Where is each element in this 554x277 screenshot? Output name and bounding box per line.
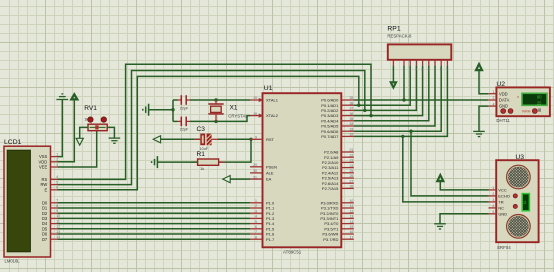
svg-text:x: x [517,95,519,99]
wire D0 net: LCD D0 to U1 P1.0 [58,202,251,204]
junction node RW/P0.2 [363,109,366,112]
svg-text:37: 37 [349,107,353,111]
svg-text:5: 5 [492,210,494,214]
wire RST net to U1 [218,138,250,140]
junction node RS/P0.3 [369,114,372,117]
svg-text:21: 21 [349,148,353,152]
svg-text:TR: TR [498,200,503,205]
svg-text:9: 9 [446,68,448,72]
svg-text:5: 5 [421,68,423,72]
wire E net: LCD E to U1 P0.1/AD1 [58,76,359,189]
svg-text:XTAL1: XTAL1 [266,98,279,103]
wire LCD VSS to ground [58,100,63,157]
wire LCD VEE to RV1 wiper [58,131,97,167]
wire U2 VDD to power [479,71,488,94]
svg-text:AT89C51: AT89C51 [283,249,302,254]
svg-text:18: 18 [253,112,257,116]
svg-text:VEE: VEE [39,165,47,170]
svg-text:23: 23 [349,159,353,163]
svg-text:32: 32 [349,133,353,137]
svg-text:VCC: VCC [498,188,507,193]
wire caps tee vertical [172,100,174,121]
svg-text:6: 6 [56,186,58,190]
wire XTAL2 net [190,116,250,122]
wire RP1 pin2 vertical [403,66,405,100]
svg-text:17: 17 [349,235,353,239]
wire P0.2 net to RP1 pin 4 [354,66,417,111]
U1 left pins [250,96,279,242]
capacitor C2 22pF (bottom) [173,117,190,132]
svg-text:5: 5 [56,180,58,184]
microcontroller U1 AT89C51 [263,85,342,255]
svg-text:1k: 1k [200,166,204,171]
svg-text:14: 14 [56,235,60,239]
junction crystal bottom [214,120,217,123]
power arrow down (RV1 left) [76,138,83,145]
svg-text:22: 22 [349,153,353,157]
svg-text:11: 11 [56,219,60,223]
svg-text:U1: U1 [264,85,273,92]
svg-text:16: 16 [349,230,353,234]
svg-text:3: 3 [56,163,58,167]
wire P0.1 net to RP1 pin 3 [354,66,410,106]
svg-text:36: 36 [349,112,353,116]
svg-text:28: 28 [349,185,353,189]
svg-text:4: 4 [492,204,494,208]
wire R1 to RST [219,139,251,162]
svg-text:2: 2 [493,96,495,100]
wire P0.3 net to RP1 pin 5 [354,66,423,116]
svg-text:13: 13 [56,230,60,234]
crystal X1 [208,100,248,121]
svg-text:X1: X1 [230,105,238,112]
svg-text:2: 2 [492,192,494,196]
svg-text:1: 1 [56,152,58,156]
svg-text:4: 4 [56,175,58,179]
svg-text:VDD: VDD [499,91,508,96]
svg-text:E: E [44,187,47,192]
wire D5 net: LCD D5 to U1 P1.5 [58,228,251,230]
svg-text:13: 13 [349,215,353,219]
svg-text:12: 12 [56,225,60,229]
svg-text:7: 7 [56,199,58,203]
svg-text:8: 8 [255,235,257,239]
svg-text:ALE: ALE [266,171,274,176]
wire P0.0/DATA net to U2 [354,99,489,101]
svg-text:6: 6 [428,68,430,72]
svg-text:33: 33 [349,127,353,131]
capacitor C1 22pF (top) [173,95,190,110]
svg-text:1: 1 [493,90,495,94]
wire P0.7 net to RP1 pin 9 [354,66,448,137]
svg-text:9: 9 [255,136,257,140]
svg-text:ECHO: ECHO [498,194,510,199]
svg-text:10: 10 [56,214,60,218]
svg-text:11: 11 [350,204,354,208]
wire D4 net: LCD D4 to U1 P1.4 [58,223,251,225]
wire EA to power terminal [230,178,250,180]
potentiometer RV1 1k [84,105,107,131]
svg-text:3: 3 [409,68,411,72]
resistor R1 1k [191,151,225,171]
wire RV1 right terminal to ground [107,127,114,138]
wire D6 net: LCD D6 to U1 P1.6 [58,233,251,235]
svg-text:25: 25 [349,169,353,173]
svg-text:10: 10 [349,199,353,203]
svg-text:2: 2 [56,158,58,162]
svg-text:4: 4 [493,102,495,106]
wire P0.6 net to RP1 pin 8 [354,66,441,132]
svg-text:PSEN: PSEN [266,164,277,169]
wire RP1 pin1 to ground arrow [392,66,394,82]
svg-text:38: 38 [349,101,353,105]
wire XTAL1 net [190,99,250,101]
svg-text:P2.7/A15: P2.7/A15 [322,186,339,191]
svg-text:LCD1: LCD1 [4,139,22,146]
ground (U3) [434,224,446,229]
svg-text:35: 35 [349,117,353,121]
ground (U2) [473,131,485,136]
svg-text:14: 14 [349,220,353,224]
junction caps tee [171,108,174,111]
svg-text:RESPACK-8: RESPACK-8 [387,33,412,38]
power arrow (U3 VCC) [437,174,444,182]
svg-text:%RH: %RH [522,110,531,114]
junction RST/R1 [249,138,252,141]
power arrow left (RST net) [153,136,160,143]
sensor U3 SRF04 [489,154,539,250]
wire terminal to caps tee [149,109,173,111]
wire P0.4 net to RP1 pin 6 [354,66,429,121]
svg-text:7: 7 [434,68,436,72]
svg-text:8: 8 [440,68,442,72]
svg-text:9: 9 [56,209,58,213]
svg-text:2: 2 [403,68,405,72]
wire RST left [161,138,200,140]
wire LCD VDD to power [58,100,75,162]
svg-text:3: 3 [492,198,494,202]
wire RS net: LCD RS to U1 P0.3/AD3 [58,64,372,179]
junction node E/P0.1 [357,104,360,107]
svg-text:25: 25 [537,100,542,105]
wire U2 GND to ground [479,106,488,131]
svg-text:1: 1 [492,186,494,190]
junction RP1 pin2 on P0.0 [402,98,405,101]
svg-text:DATA: DATA [499,98,510,103]
svg-text:CRYSTAL: CRYSTAL [228,113,248,118]
wire RV1 left terminal [80,127,88,138]
svg-text:24: 24 [349,164,353,168]
resistor pack RP1 RESPACK-8 [387,26,451,72]
svg-text:81: 81 [523,200,527,204]
svg-text:D7: D7 [42,237,48,242]
junction ECHO/P0.6 [409,130,412,133]
ground arrow (RP1 pin1) [390,82,397,89]
wire D3 net: LCD D3 to U1 P1.3 [58,217,251,219]
svg-text:31: 31 [253,175,257,179]
wire U3 VCC to power [440,182,488,190]
svg-text:1: 1 [255,199,257,203]
svg-text:R1: R1 [197,151,206,158]
svg-text:34: 34 [349,122,353,126]
svg-text:2: 2 [255,204,257,208]
wire P0.5 net to RP1 pin 7 [354,66,435,126]
svg-text:C3: C3 [197,126,206,133]
svg-text:7: 7 [255,230,257,234]
svg-text:8: 8 [56,204,58,208]
svg-text:29: 29 [253,163,257,167]
wire R1 left [157,161,197,163]
svg-text:DHT11: DHT11 [496,118,510,123]
svg-text:GND: GND [498,211,507,216]
svg-text:39: 39 [349,96,353,100]
wire RW net: LCD RW to U1 P0.2/AD2 [58,71,365,185]
svg-text:RST: RST [266,137,275,142]
svg-text:12: 12 [349,209,353,213]
svg-text:SRF04: SRF04 [497,245,511,250]
wire U3 GND to ground [440,214,489,224]
svg-text:4: 4 [415,68,417,72]
terminal (R1 left) [152,156,158,168]
junction crystal top [214,98,217,101]
svg-text:80: 80 [537,95,542,100]
svg-text:EA: EA [266,177,272,182]
wire TR net: P0.7 to U3 TR [403,136,489,202]
svg-text:LM016L: LM016L [5,258,21,263]
power arrow (U2 VDD) [475,63,482,71]
svg-text:26: 26 [349,174,353,178]
svg-text:P1.7: P1.7 [266,237,275,242]
svg-text:4: 4 [255,215,257,219]
power arrow (LCD VDD) [71,93,79,99]
U1 right pins [320,96,353,242]
ground (LCD VSS) [56,94,68,100]
svg-text:RP1: RP1 [387,26,400,33]
wire D7 net: LCD D7 to U1 P1.7 [58,238,251,240]
svg-text:3: 3 [255,209,257,213]
sensor U2 DHT11 [488,81,550,123]
power arrow left (EA) [223,176,230,183]
svg-text:P0.7/AD7: P0.7/AD7 [321,134,339,139]
svg-text:NC: NC [498,206,504,211]
svg-text:XTAL2: XTAL2 [266,113,279,118]
wire D1 net: LCD D1 to U1 P1.1 [58,207,251,209]
wire ECHO net: P0.6 to U3 ECHO [411,131,489,196]
wire D2 net: LCD D2 to U1 P1.2 [58,212,251,214]
capacitor C3 10uF [194,126,218,151]
svg-text:22pF: 22pF [180,128,189,132]
LCD display LCD1 (LM016L) [4,139,60,263]
svg-text:RV1: RV1 [84,105,97,112]
svg-text:GND: GND [499,104,508,109]
ground (RV1) [109,138,121,143]
terminal (caps common) [143,104,149,116]
svg-text:27: 27 [349,179,353,183]
svg-text:5: 5 [255,220,257,224]
svg-text:30: 30 [253,169,257,173]
junction TR/P0.7 [401,135,404,138]
svg-text:22pF: 22pF [180,106,189,110]
svg-text:P3.7/RD: P3.7/RD [323,237,338,242]
svg-text:6: 6 [255,225,257,229]
svg-text:15: 15 [349,225,353,229]
svg-text:19: 19 [253,96,257,100]
